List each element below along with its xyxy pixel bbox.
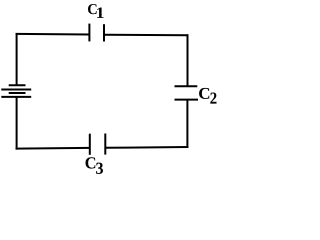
capacitor C3 right plate	[104, 134, 106, 155]
battery top short plate (-)	[9, 84, 26, 86]
capacitor C2 top plate	[175, 85, 198, 87]
label C2 letter C	[199, 88, 209, 99]
wire: bottom-right corner to C3 right plate	[105, 146, 188, 149]
wire: top-left corner to C1 left plate	[16, 33, 90, 36]
wire: top-right corner down to C2 top plate	[187, 34, 189, 86]
label C3 letter C	[86, 157, 96, 168]
battery bottom long plate (+)	[1, 96, 31, 98]
capacitor C1 left plate	[88, 24, 90, 42]
wire: bottom-left corner up to battery bottom plate	[16, 97, 18, 150]
battery second short plate (-)	[9, 92, 26, 94]
wire: C2 bottom plate to bottom-right corner	[186, 100, 188, 148]
label C3 subscript 3	[96, 163, 103, 174]
capacitor C1 right plate	[103, 24, 105, 41]
label C2 subscript 2	[210, 92, 216, 103]
wire: C1 right plate to top-right corner	[104, 34, 189, 37]
label C1 letter C	[88, 4, 97, 14]
label C1 subscript 1	[97, 8, 104, 18]
capacitor C3 left plate	[89, 134, 91, 155]
wire: C3 left plate to bottom-left corner	[16, 147, 90, 150]
capacitor C2 bottom plate	[175, 99, 199, 101]
wire: battery top plate up to top-left corner	[16, 33, 18, 85]
battery middle long plate (+)	[1, 89, 31, 91]
